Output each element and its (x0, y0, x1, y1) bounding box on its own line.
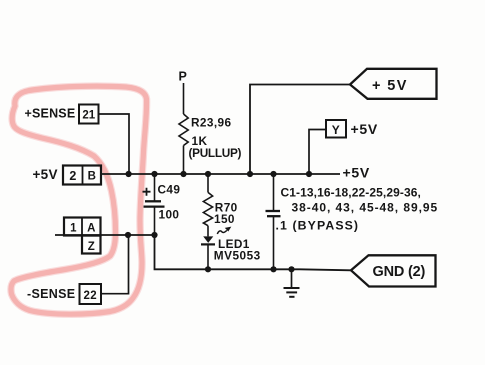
node: junction dot C49 / bus (151, 171, 157, 177)
node: junction dot Y riser / bus (306, 171, 312, 177)
resistor R23,96 (179, 114, 188, 146)
resistor R70 (203, 174, 212, 226)
svg-text:.1 (BYPASS): .1 (BYPASS) (276, 219, 360, 233)
svg-text:38-40, 43, 45-48, 89,95: 38-40, 43, 45-48, 89,95 (292, 201, 439, 215)
wire C49 lead down to ground bus (155, 235, 352, 270)
svg-text:2: 2 (69, 169, 76, 183)
connector pin box Z (82, 236, 101, 254)
svg-text:P: P (179, 70, 188, 84)
svg-text:+5V: +5V (33, 167, 58, 182)
wire resistor R23 to bus (183, 146, 185, 175)
svg-text:1: 1 (70, 223, 77, 235)
GND flag (351, 255, 436, 286)
capacitor C49 (143, 174, 165, 235)
connector pin box 2 / B (63, 166, 101, 185)
svg-text:+5V: +5V (343, 165, 370, 181)
node: junction dot -SENSE riser / middle bus (125, 232, 131, 238)
svg-text:-SENSE: -SENSE (27, 287, 75, 301)
svg-text:A: A (87, 223, 96, 235)
middle bus wire at pins 1/A/Z (55, 234, 155, 236)
svg-text:Y: Y (332, 123, 340, 137)
svg-text:GND (2): GND (2) (373, 264, 426, 280)
svg-text:C1-13,16-18,22-25,29-36,: C1-13,16-18,22-25,29-36, (281, 186, 422, 200)
wire riser to Y box (309, 130, 326, 175)
svg-text:(PULLUP): (PULLUP) (189, 146, 242, 160)
connector pin box 22 (80, 284, 102, 304)
pink highlighter loop (11, 86, 147, 314)
value label R23,96 1K (PULLUP) (189, 116, 242, 161)
connector pin box 21 (79, 105, 99, 124)
value label C1-13... .1 (BYPASS) (276, 186, 439, 233)
svg-text:C49: C49 (158, 183, 181, 197)
connector pin box 1 / A (64, 218, 101, 236)
Y box (326, 120, 346, 138)
svg-text:B: B (88, 171, 97, 183)
+5V bus wire (horizontal) (101, 173, 340, 175)
power flag +5V (350, 69, 437, 99)
svg-text:100: 100 (159, 208, 180, 222)
node: junction dot +5V flag riser / bus (247, 171, 253, 177)
svg-text:+ 5V: + 5V (372, 78, 408, 94)
capacitor C bypass (266, 174, 281, 270)
value label LED1 MV5053 (214, 237, 261, 262)
value label R70 150 (214, 200, 238, 226)
svg-text:22: 22 (84, 290, 98, 302)
node: junction dot R70 / bus (205, 171, 211, 177)
svg-text:150: 150 (214, 212, 235, 226)
svg-text:+SENSE: +SENSE (25, 107, 76, 121)
node: junction dot C49 lead / middle bus (151, 232, 157, 238)
svg-text:R23,96: R23,96 (191, 116, 231, 130)
node: junction dot LED / ground bus (205, 266, 211, 272)
wire riser to +5V flag (250, 85, 350, 175)
wire from pin 21 to +5V bus (99, 114, 129, 172)
svg-text:MV5053: MV5053 (214, 249, 261, 263)
LED LED1 (201, 226, 231, 269)
ground (284, 269, 300, 297)
node: junction dot bypass cap / ground bus (270, 266, 276, 272)
node: junction dot R23 / bus (180, 171, 186, 177)
wire from pin 22 up to middle bus (101, 235, 129, 294)
node: junction dot pin21 wire / bus (126, 171, 132, 177)
svg-text:Z: Z (88, 241, 95, 253)
svg-text:21: 21 (82, 110, 95, 122)
wire P to resistor R23 (183, 83, 185, 114)
node: junction dot bypass cap / bus (270, 171, 276, 177)
node: junction dot ground stub / ground bus (288, 266, 294, 272)
svg-text:+5V: +5V (351, 121, 378, 137)
value label C49 100 (158, 183, 181, 222)
